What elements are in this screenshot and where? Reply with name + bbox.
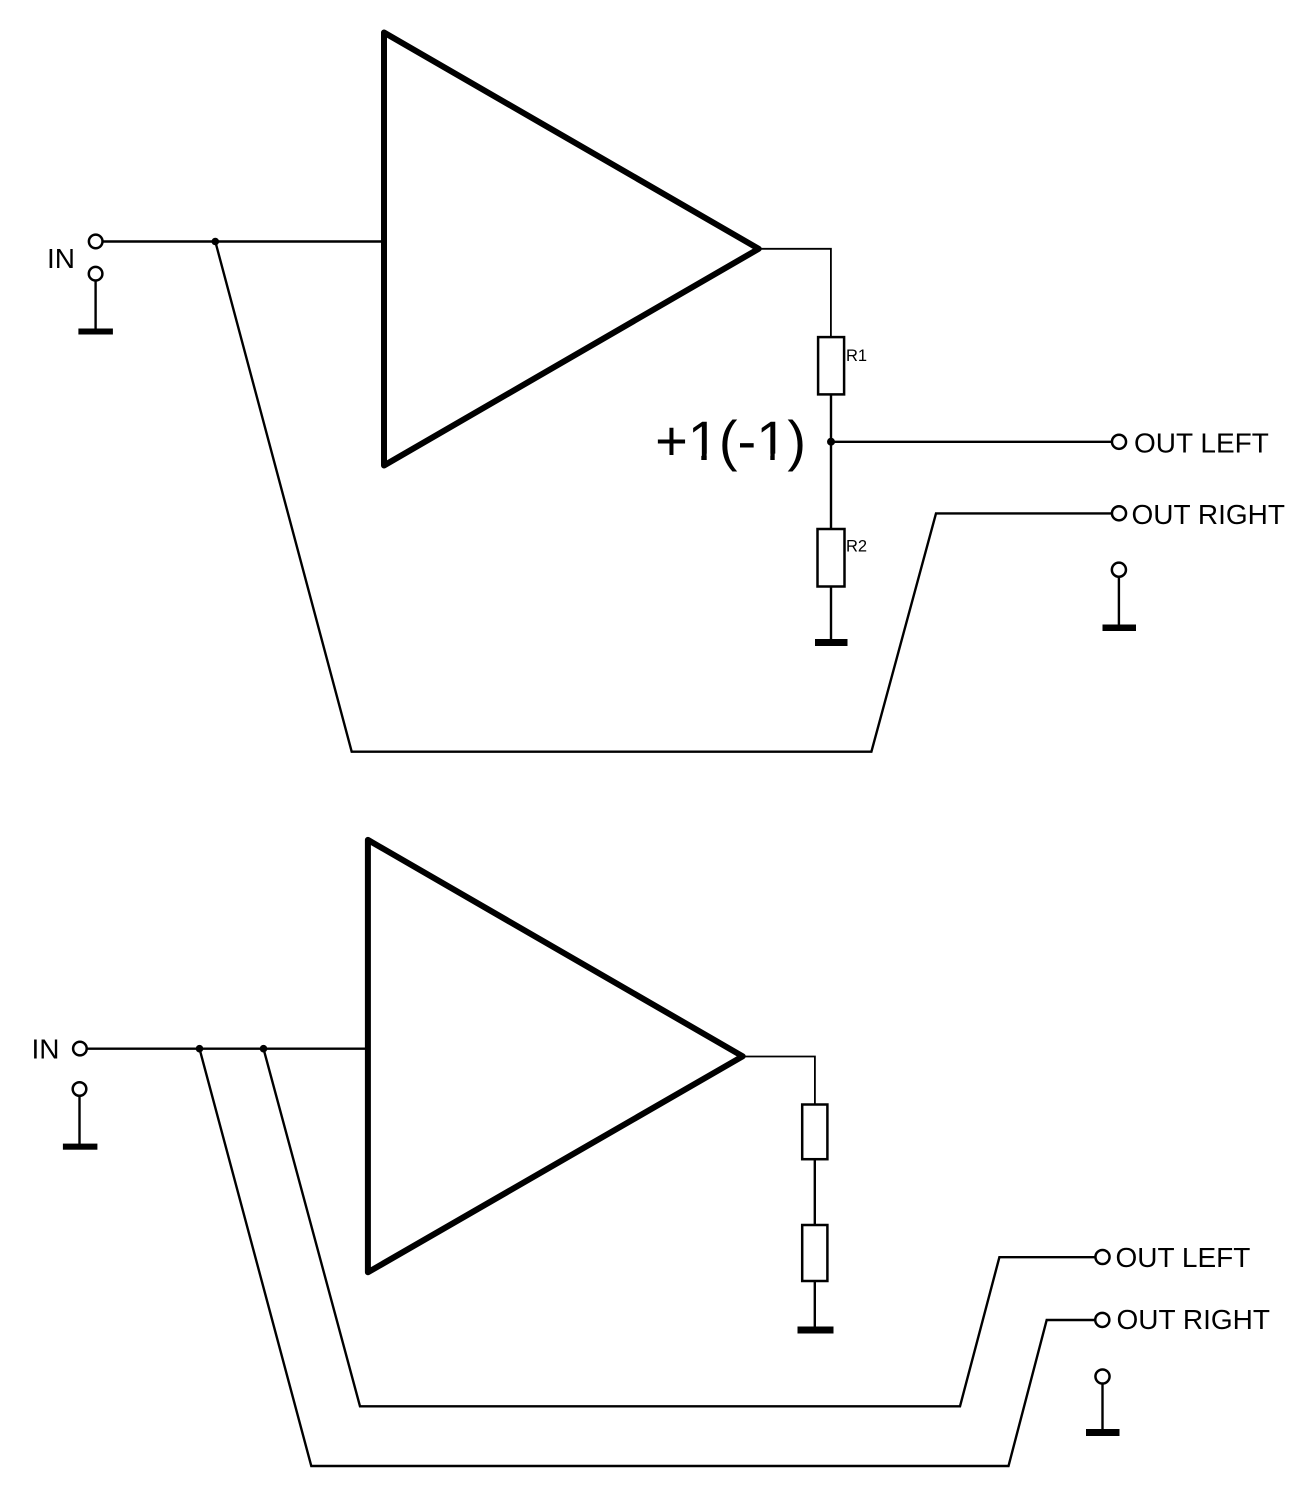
svg-text:OUT LEFT: OUT LEFT [1116,1242,1251,1273]
svg-text:IN: IN [47,243,75,274]
svg-text:OUT RIGHT: OUT RIGHT [1117,1304,1270,1335]
svg-text:R2: R2 [846,538,867,556]
svg-text:OUT RIGHT: OUT RIGHT [1132,499,1285,530]
svg-text:IN: IN [32,1034,60,1065]
svg-text:+1(-1): +1(-1) [655,409,806,472]
svg-text:R1: R1 [846,347,867,365]
svg-text:OUT LEFT: OUT LEFT [1134,427,1269,458]
